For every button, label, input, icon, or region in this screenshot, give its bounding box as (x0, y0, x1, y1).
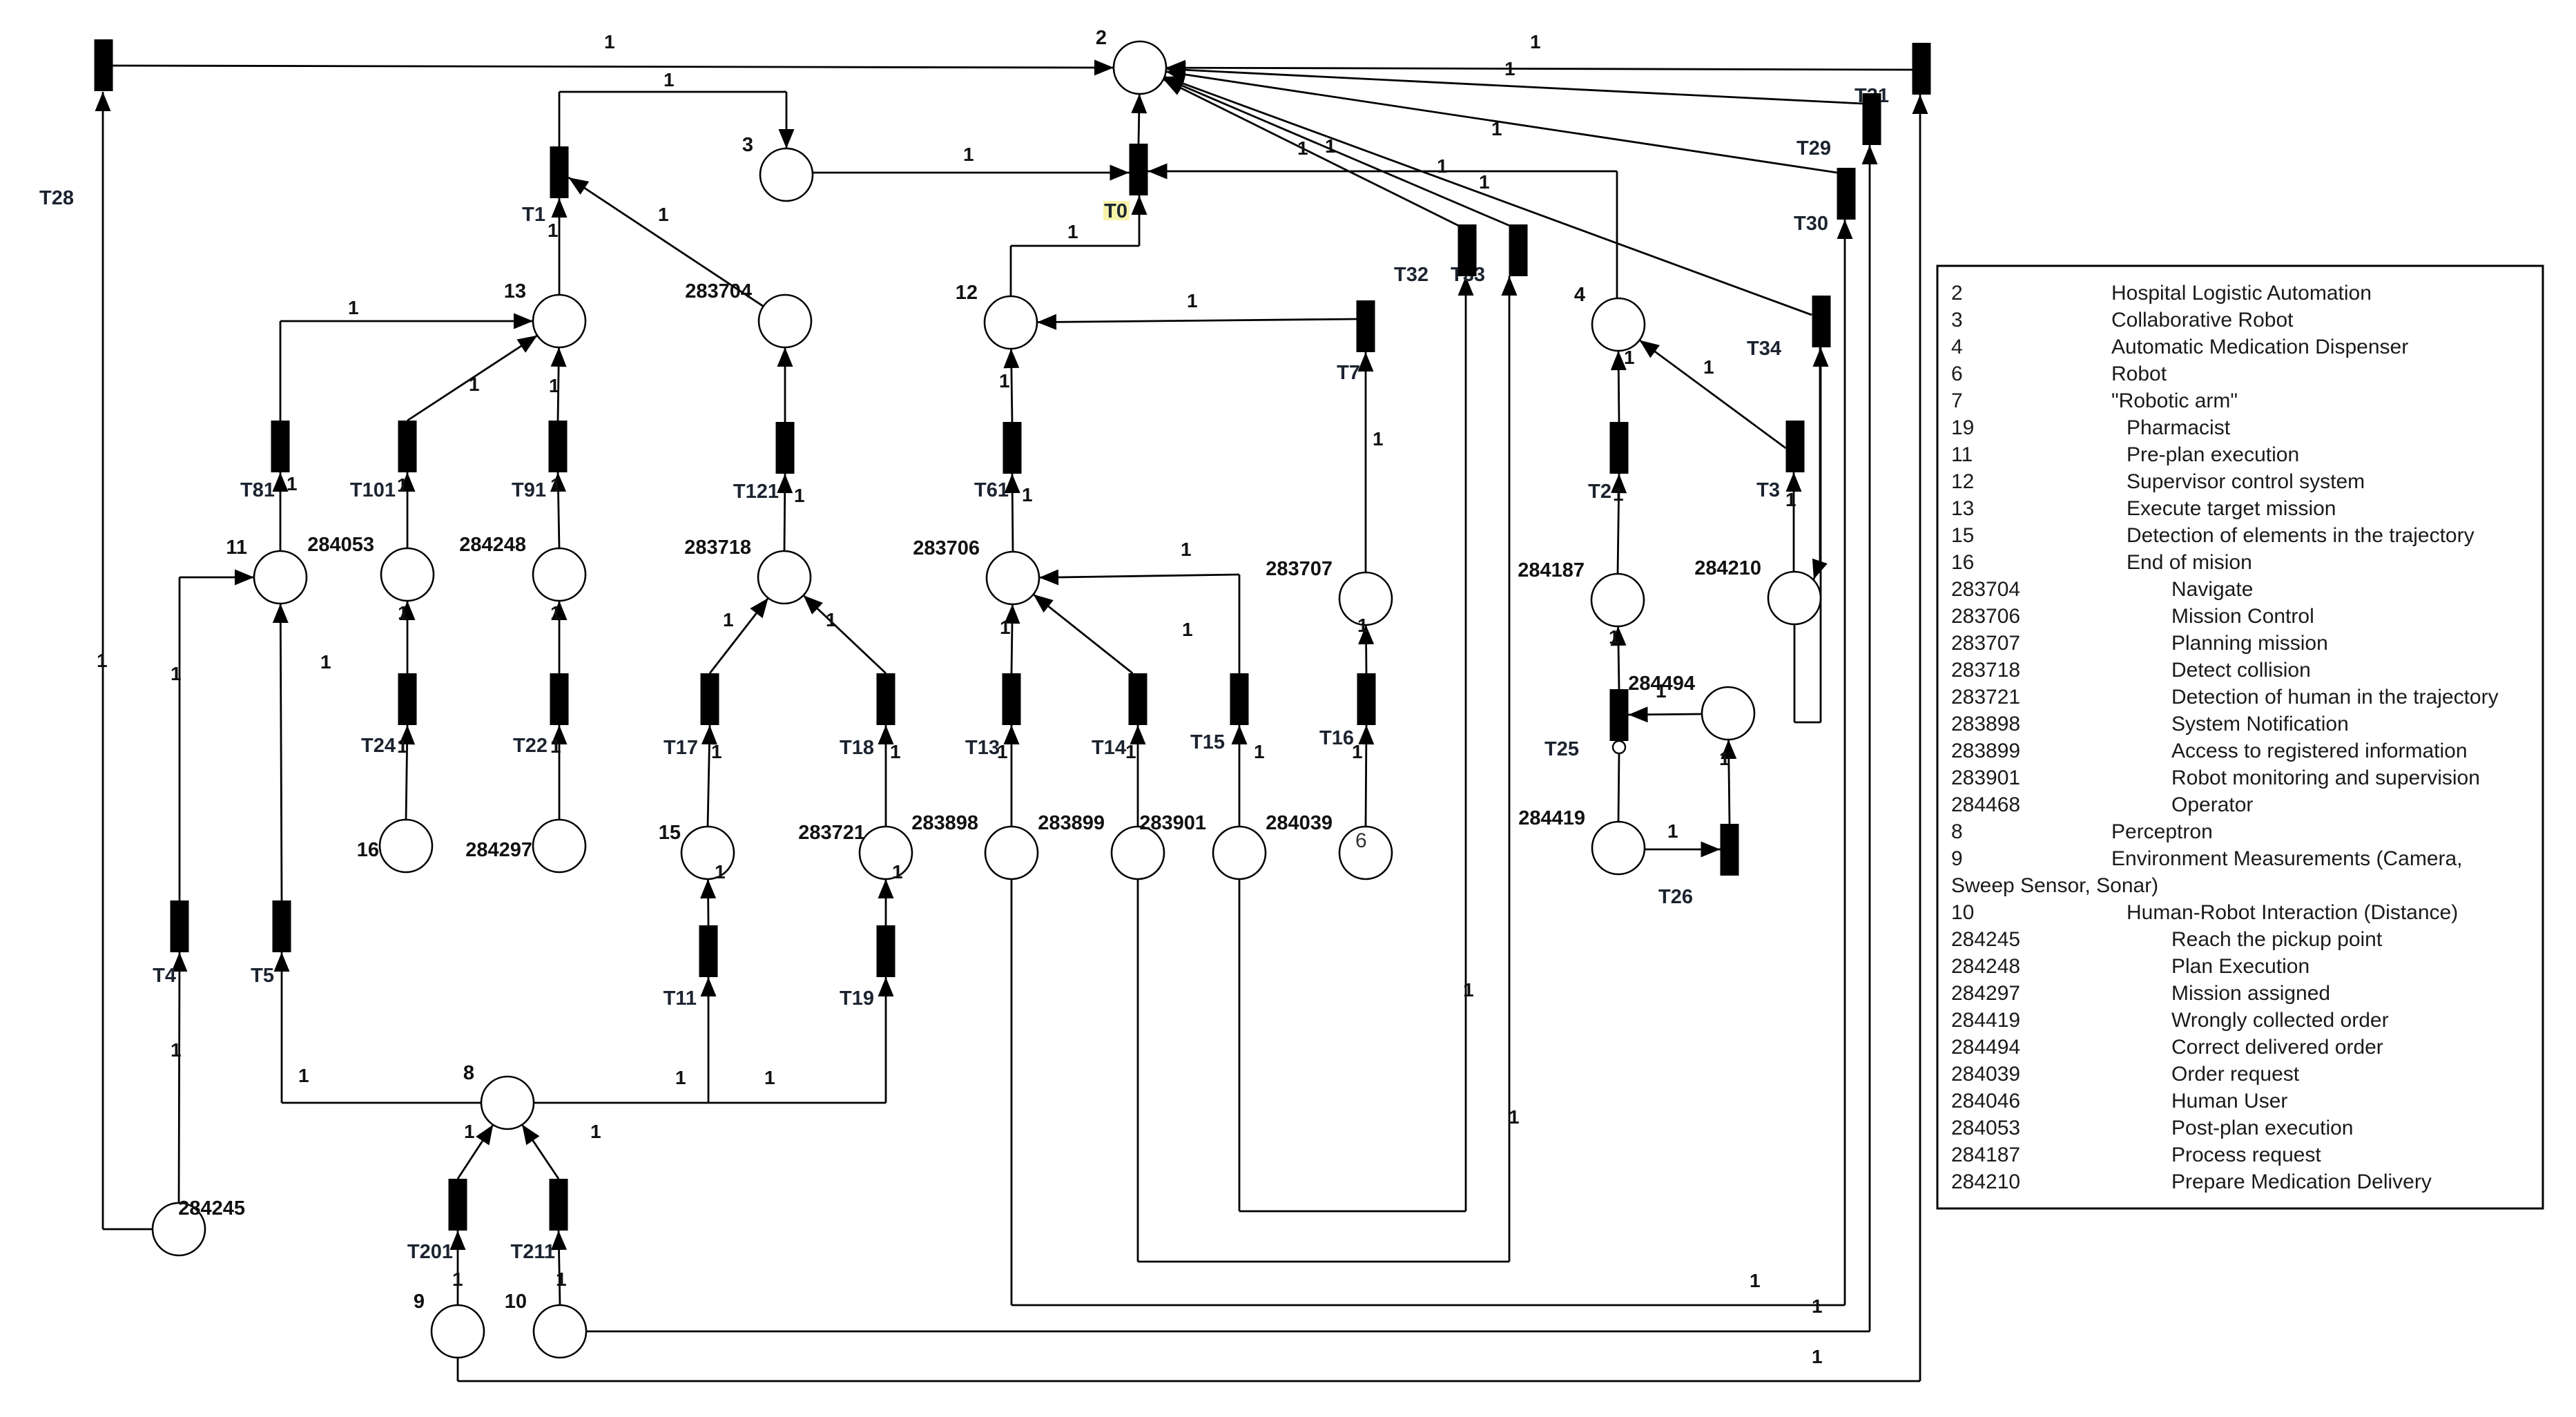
wire arc T11->15 (707, 879, 709, 925)
wire arc T121->283704 (784, 347, 786, 422)
svg-text:284297: 284297 (465, 839, 532, 861)
wire arc T201->8 (458, 1125, 493, 1179)
svg-text:6: 6 (1951, 363, 1963, 385)
svg-text:1: 1 (1491, 118, 1502, 139)
wire arc 8->T11 (534, 1102, 708, 1104)
svg-text:1: 1 (999, 370, 1010, 392)
place 12 (985, 296, 1037, 349)
transition T201 (449, 1179, 467, 1231)
svg-text:1: 1 (1504, 58, 1515, 79)
svg-text:T2: T2 (1588, 481, 1611, 503)
place 16 (380, 820, 432, 872)
svg-text:1: 1 (298, 1065, 309, 1086)
transition T15 (1230, 673, 1249, 725)
wire arc 283898->T30 (1011, 879, 1013, 1305)
svg-text:1: 1 (1254, 741, 1265, 762)
place 283718 (758, 551, 811, 604)
svg-text:283898: 283898 (911, 812, 978, 834)
wire arc 283899->T33 (1137, 879, 1139, 1262)
svg-text:11: 11 (226, 537, 247, 559)
svg-text:T24: T24 (361, 735, 396, 757)
svg-text:Correct delivered order: Correct delivered order (2171, 1036, 2383, 1059)
svg-text:1: 1 (604, 31, 615, 52)
svg-text:Mission Control: Mission Control (2171, 605, 2314, 628)
svg-text:Detection of elements in the t: Detection of elements in the trajectory (2127, 524, 2475, 547)
svg-text:Hospital Logistic Automation: Hospital Logistic Automation (2111, 282, 2372, 305)
svg-text:Collaborative Robot: Collaborative Robot (2111, 309, 2294, 331)
svg-text:1: 1 (1437, 155, 1448, 177)
transition T81 (271, 421, 290, 472)
svg-text:6: 6 (1355, 829, 1367, 852)
wire arc 283901->T32 (1239, 879, 1241, 1211)
svg-text:9: 9 (414, 1291, 425, 1313)
place 13 (533, 295, 585, 347)
svg-text:1: 1 (892, 861, 903, 883)
place 284245 (153, 1203, 205, 1255)
svg-text:284419: 284419 (1518, 807, 1585, 829)
wire arc T30->2 (1166, 72, 1837, 173)
wire arc T28->2 (113, 66, 1114, 68)
svg-text:283706: 283706 (1951, 605, 2020, 628)
svg-text:284210: 284210 (1694, 557, 1761, 579)
wire arc T18->283718 (804, 595, 886, 673)
svg-text:1: 1 (550, 474, 561, 496)
svg-text:T3: T3 (1756, 479, 1780, 501)
svg-text:8: 8 (463, 1062, 474, 1084)
wire arc 284053->T101 (407, 472, 409, 548)
svg-text:Prepare Medication Delivery: Prepare Medication Delivery (2171, 1170, 2432, 1193)
transition T31 (1912, 43, 1931, 95)
svg-text:3: 3 (742, 134, 753, 156)
svg-text:T15: T15 (1190, 731, 1225, 753)
svg-text:T32: T32 (1394, 264, 1429, 286)
wire arc T5->11 (280, 604, 282, 900)
svg-text:1: 1 (452, 1269, 463, 1290)
svg-text:283721: 283721 (798, 822, 865, 844)
wire arc 284245->T28 (103, 1228, 153, 1231)
place 283721 (860, 827, 912, 879)
svg-text:11: 11 (1951, 443, 1973, 466)
svg-text:Reach the pickup point: Reach the pickup point (2171, 928, 2383, 951)
transition T61 (1003, 422, 1022, 474)
wire arc T211->8 (522, 1125, 559, 1179)
wire arc T101->13 (407, 336, 537, 421)
wire arc T34->284210 (1819, 347, 1821, 561)
wire arc T0->2 (1139, 94, 1139, 144)
svg-text:10: 10 (505, 1291, 527, 1313)
wire arc 9->T31 (457, 1358, 459, 1381)
transition T18 (877, 673, 895, 725)
svg-text:284053: 284053 (1951, 1117, 2020, 1139)
svg-text:T81: T81 (240, 479, 275, 501)
svg-text:1: 1 (556, 1269, 567, 1290)
svg-text:284245: 284245 (178, 1197, 245, 1220)
svg-text:283899: 283899 (1038, 812, 1105, 834)
svg-text:T19: T19 (840, 987, 874, 1010)
svg-text:Detection of human in the traj: Detection of human in the trajectory (2171, 686, 2499, 708)
svg-text:1: 1 (1022, 484, 1033, 505)
svg-text:Pharmacist: Pharmacist (2127, 416, 2231, 439)
svg-text:284297: 284297 (1951, 982, 2020, 1005)
svg-text:284187: 284187 (1951, 1144, 2020, 1166)
wire arc 283704->T1 (569, 177, 764, 307)
wire arc T22->284248 (559, 601, 561, 673)
svg-text:T30: T30 (1794, 213, 1828, 235)
place 284187 (1591, 574, 1644, 626)
wire arc T81->13 (280, 321, 282, 421)
svg-text:1: 1 (997, 741, 1008, 762)
svg-text:7: 7 (1951, 389, 1963, 412)
transition T26 (1721, 824, 1739, 876)
svg-text:16: 16 (1951, 551, 1974, 574)
svg-text:Perceptron: Perceptron (2111, 820, 2213, 843)
svg-text:1: 1 (548, 220, 559, 241)
transition T13 (1003, 673, 1021, 725)
transition T11 (699, 925, 718, 977)
transition T14 (1129, 673, 1147, 725)
wire arc 283899->T14 (1137, 725, 1139, 827)
wire arc 3->T0 (813, 172, 1130, 174)
svg-text:1: 1 (723, 609, 734, 630)
wire arc 10->T211 (559, 1231, 560, 1305)
wire arc 284039->T16 (1366, 725, 1366, 827)
svg-text:End of mision: End of mision (2127, 551, 2252, 574)
svg-text:T4: T4 (153, 965, 176, 987)
transition T17 (701, 673, 719, 725)
svg-text:1: 1 (549, 375, 560, 396)
wire arc 10->T29 (586, 1331, 1870, 1333)
svg-text:Human User: Human User (2171, 1090, 2287, 1112)
svg-text:Sweep Sensor, Sonar): Sweep Sensor, Sonar) (1951, 874, 2158, 897)
svg-text:Robot: Robot (2111, 363, 2167, 385)
svg-text:284248: 284248 (1951, 955, 2020, 978)
svg-text:T25: T25 (1544, 738, 1579, 760)
svg-text:1: 1 (664, 69, 675, 90)
place 2 (1114, 41, 1166, 94)
svg-text:T121: T121 (733, 481, 779, 503)
svg-text:283899: 283899 (1951, 740, 2020, 762)
svg-text:284468: 284468 (1951, 793, 2020, 816)
svg-text:Environment Measurements (Came: Environment Measurements (Camera, (2111, 847, 2463, 870)
svg-text:1: 1 (1357, 615, 1368, 636)
svg-text:9: 9 (1951, 847, 1963, 870)
svg-text:T16: T16 (1319, 727, 1354, 749)
place 283707 (1339, 572, 1392, 625)
svg-text:1: 1 (1703, 356, 1714, 378)
svg-text:283718: 283718 (1951, 659, 2020, 682)
svg-text:1: 1 (764, 1067, 775, 1088)
svg-text:1: 1 (171, 1039, 182, 1061)
svg-text:1: 1 (1613, 483, 1624, 505)
svg-text:1: 1 (1000, 617, 1011, 638)
svg-text:1: 1 (348, 297, 359, 318)
svg-text:284046: 284046 (1951, 1090, 2020, 1112)
svg-text:System Notification: System Notification (2171, 713, 2349, 735)
svg-text:T61: T61 (974, 479, 1009, 501)
highlight T0 (1103, 201, 1130, 220)
transition T91 (549, 421, 568, 472)
svg-text:T18: T18 (840, 737, 874, 759)
svg-text:T5: T5 (251, 965, 274, 987)
wire arc 283707->T7 (1365, 352, 1367, 572)
svg-text:284210: 284210 (1951, 1170, 2020, 1193)
transition T22 (550, 673, 569, 725)
svg-text:T11: T11 (664, 987, 697, 1010)
svg-text:1: 1 (826, 609, 837, 630)
transition T1 (550, 146, 569, 198)
wire arc T4->11 (179, 577, 181, 900)
transition T4 (171, 900, 189, 952)
svg-text:284248: 284248 (459, 534, 526, 556)
wire arc T3->4 (1640, 340, 1786, 448)
svg-text:283706: 283706 (913, 537, 980, 559)
svg-text:16: 16 (357, 839, 379, 861)
wire arc 283901->T15 (1239, 725, 1241, 827)
svg-text:13: 13 (1951, 497, 1974, 520)
svg-text:283707: 283707 (1266, 558, 1333, 580)
wire arc 284210->T3 (1793, 472, 1795, 572)
svg-text:283901: 283901 (1951, 767, 2020, 789)
svg-text:Robot monitoring and supervisi: Robot monitoring and supervision (2171, 767, 2480, 789)
svg-text:T17: T17 (664, 737, 698, 759)
svg-text:283704: 283704 (685, 280, 752, 302)
svg-text:T14: T14 (1092, 737, 1126, 759)
svg-text:283721: 283721 (1951, 686, 2020, 708)
wire arc 283898->T13 (1011, 725, 1013, 827)
svg-text:T29: T29 (1797, 137, 1831, 160)
transition T121 (776, 422, 795, 474)
wire arc T19->283721 (885, 879, 887, 925)
svg-text:T28: T28 (39, 187, 74, 209)
svg-text:1: 1 (287, 473, 298, 494)
svg-text:1: 1 (1624, 347, 1635, 368)
svg-text:1: 1 (1656, 680, 1667, 702)
transition T25 (1610, 689, 1629, 741)
svg-text:1: 1 (794, 485, 805, 506)
svg-text:284039: 284039 (1951, 1063, 2020, 1086)
place 284210 (1768, 572, 1821, 624)
svg-text:T1: T1 (522, 204, 545, 226)
place 284419 (1592, 822, 1645, 874)
wire arc 8->T19 (708, 1102, 886, 1104)
svg-text:2: 2 (1096, 27, 1107, 49)
transition T211 (550, 1179, 568, 1231)
wire arc T91->13 (558, 347, 559, 421)
svg-text:2: 2 (1951, 282, 1963, 305)
wire arc T25->284187 (1618, 626, 1619, 689)
wire arc T14->283706 (1034, 595, 1133, 673)
svg-text:1: 1 (397, 735, 408, 757)
svg-text:1: 1 (1352, 741, 1363, 762)
transition T2 (1610, 422, 1629, 474)
svg-text:1: 1 (1667, 820, 1678, 842)
svg-text:15: 15 (659, 822, 681, 844)
transition T5 (273, 900, 291, 952)
wire arc 13->T1 (559, 198, 561, 295)
svg-text:Detect collision: Detect collision (2171, 659, 2311, 682)
svg-text:Mission assigned: Mission assigned (2171, 982, 2330, 1005)
svg-text:1: 1 (1125, 741, 1136, 762)
wire arc 12->T0 (1010, 246, 1012, 296)
inhibitor 284419->T25 (1618, 753, 1619, 822)
svg-text:3: 3 (1951, 309, 1963, 331)
svg-text:284039: 284039 (1266, 812, 1333, 834)
wire arc T24->284053 (407, 601, 409, 673)
place 4 (1592, 298, 1645, 351)
transition T101 (398, 421, 417, 472)
wire arc T1->3 (559, 92, 561, 146)
svg-text:1: 1 (1067, 221, 1078, 242)
svg-text:13: 13 (504, 280, 526, 302)
transition T30 (1837, 168, 1856, 220)
svg-text:Human-Robot Interaction (Dista: Human-Robot Interaction (Distance) (2127, 901, 2458, 924)
svg-text:Wrongly collected order: Wrongly collected order (2171, 1009, 2389, 1032)
svg-text:1: 1 (1463, 979, 1474, 1001)
wire arc T26->284494 (1729, 740, 1730, 824)
wire arc 284494->T25 (1629, 714, 1703, 715)
svg-text:Post-plan execution: Post-plan execution (2171, 1117, 2354, 1139)
svg-text:Execute target mission: Execute target mission (2127, 497, 2336, 520)
place 284053 (381, 548, 434, 601)
place 283704 (759, 295, 811, 347)
svg-text:8: 8 (1951, 820, 1963, 843)
wire arc 284210->T34 (1794, 624, 1796, 722)
wire arc 283718->T121 (784, 474, 785, 551)
svg-text:"Robotic arm": "Robotic arm" (2111, 389, 2238, 412)
place 283706 (987, 552, 1039, 604)
svg-text:Navigate: Navigate (2171, 578, 2253, 601)
svg-text:1: 1 (590, 1121, 601, 1142)
wire arc 8->T5 (282, 1102, 481, 1104)
place 9 (432, 1305, 484, 1358)
wire arc 284187->T2 (1618, 474, 1619, 574)
svg-text:Process request: Process request (2171, 1144, 2321, 1166)
svg-text:T26: T26 (1658, 886, 1693, 908)
svg-text:T101: T101 (350, 479, 396, 501)
svg-text:284053: 284053 (307, 534, 374, 556)
svg-text:T34: T34 (1747, 338, 1781, 360)
svg-text:1: 1 (1812, 1346, 1823, 1367)
place 284494 (1702, 687, 1754, 740)
place 8 (481, 1077, 534, 1129)
svg-text:1: 1 (1812, 1295, 1823, 1317)
transition T32 (1458, 224, 1477, 276)
svg-text:1: 1 (171, 663, 182, 684)
svg-text:Access to registered informati: Access to registered information (2171, 740, 2468, 762)
wire arc T34->2 (1165, 77, 1812, 315)
wire arc T15->283706 (1239, 575, 1241, 673)
svg-text:283704: 283704 (1951, 578, 2020, 601)
svg-text:4: 4 (1574, 284, 1585, 306)
svg-text:Order request: Order request (2171, 1063, 2300, 1086)
wire arc 16->T24 (406, 725, 407, 820)
transition T16 (1357, 673, 1376, 725)
svg-text:1: 1 (1530, 31, 1541, 52)
svg-text:1: 1 (1719, 748, 1730, 769)
svg-text:1: 1 (658, 204, 669, 225)
svg-text:283898: 283898 (1951, 713, 2020, 735)
svg-text:4: 4 (1951, 336, 1963, 358)
wire arc T13->283706 (1011, 604, 1012, 673)
svg-text:10: 10 (1951, 901, 1974, 924)
wire arc T33->2 (1164, 78, 1510, 226)
svg-text:284245: 284245 (1951, 928, 2020, 951)
place 284039 (1339, 827, 1392, 879)
wire arc T16->283707 (1365, 625, 1367, 673)
svg-text:Pre-plan execution: Pre-plan execution (2127, 443, 2299, 466)
svg-text:1: 1 (675, 1067, 686, 1088)
svg-text:284187: 284187 (1518, 559, 1585, 581)
svg-text:Planning mission: Planning mission (2171, 632, 2328, 655)
svg-text:Automatic Medication Dispenser: Automatic Medication Dispenser (2111, 336, 2408, 358)
place 283898 (985, 827, 1038, 879)
svg-text:1: 1 (550, 602, 561, 624)
svg-text:1: 1 (711, 741, 722, 762)
svg-text:T211: T211 (511, 1241, 556, 1263)
wire arc T61->12 (1011, 349, 1013, 422)
svg-text:1: 1 (1479, 171, 1490, 193)
svg-text:Operator: Operator (2171, 793, 2253, 816)
svg-text:283901: 283901 (1139, 812, 1206, 834)
svg-text:1: 1 (890, 741, 901, 762)
place 284248 (533, 548, 585, 601)
wire arc 284248->T91 (558, 472, 559, 548)
wire arc T32->2 (1163, 79, 1459, 226)
wire arc 284245->T4 (179, 952, 180, 1203)
wire arc 283721->T18 (885, 725, 887, 827)
place 284297 (533, 820, 585, 872)
svg-text:Plan Execution: Plan Execution (2171, 955, 2309, 978)
svg-text:T13: T13 (965, 737, 1000, 759)
place 3 (760, 148, 813, 201)
wire arc T29->2 (1166, 69, 1863, 104)
wire arc 283706->T61 (1012, 474, 1013, 552)
place 11 (254, 551, 307, 604)
svg-text:1: 1 (464, 1121, 475, 1142)
svg-text:1: 1 (97, 650, 108, 671)
svg-text:1: 1 (1181, 539, 1192, 560)
svg-text:1: 1 (320, 651, 331, 673)
wire arc 9->T201 (457, 1231, 459, 1305)
svg-text:1: 1 (469, 374, 480, 395)
svg-text:1: 1 (1182, 619, 1193, 640)
transition T34 (1812, 296, 1831, 347)
transition T29 (1863, 93, 1881, 145)
place 15 (681, 827, 734, 879)
svg-text:12: 12 (1951, 470, 1974, 493)
svg-text:19: 19 (1951, 416, 1974, 439)
wire arc 284297->T22 (559, 725, 561, 820)
svg-text:284419: 284419 (1951, 1009, 2020, 1032)
wire arc 11->T81 (280, 472, 282, 551)
svg-text:1: 1 (550, 735, 561, 757)
svg-text:Supervisor control system: Supervisor control system (2127, 470, 2365, 493)
svg-text:12: 12 (956, 282, 978, 304)
svg-text:T91: T91 (512, 479, 546, 501)
place 283899 (1112, 827, 1164, 879)
svg-text:T22: T22 (513, 735, 548, 757)
svg-text:1: 1 (1750, 1270, 1761, 1291)
svg-text:283718: 283718 (684, 537, 751, 559)
transition T3 (1786, 421, 1805, 472)
transition T19 (877, 925, 895, 977)
svg-text:1: 1 (398, 602, 409, 624)
svg-text:T0: T0 (1104, 200, 1127, 222)
svg-text:1: 1 (1609, 626, 1620, 648)
transition T33 (1509, 224, 1528, 276)
wire arc T17->283718 (710, 598, 768, 673)
place 283901 (1213, 827, 1266, 879)
